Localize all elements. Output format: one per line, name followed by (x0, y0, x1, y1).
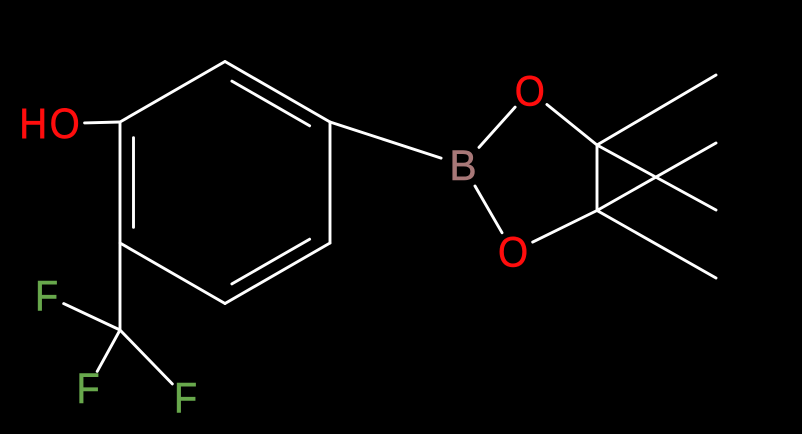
svg-text:H: H (19, 99, 47, 147)
svg-text:F: F (174, 373, 197, 422)
svg-text:O: O (515, 67, 545, 115)
svg-text:F: F (35, 271, 58, 320)
svg-text:O: O (50, 99, 80, 147)
svg-text:O: O (498, 228, 528, 276)
svg-text:B: B (449, 141, 476, 189)
svg-text:F: F (76, 364, 99, 413)
